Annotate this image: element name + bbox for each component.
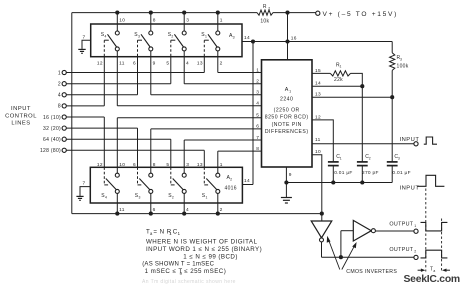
svg-text:8: 8 — [153, 162, 156, 168]
svg-text:OUTPUT: OUTPUT — [389, 247, 413, 253]
svg-text:1 ≤ N ≤ 99 (BCD): 1 ≤ N ≤ 99 (BCD) — [183, 254, 238, 261]
svg-text:12: 12 — [97, 60, 103, 66]
svg-text:2: 2 — [220, 60, 223, 66]
svg-text:WHERE N IS WEIGHT OF DIGITAL: WHERE N IS WEIGHT OF DIGITAL — [146, 238, 257, 245]
svg-text:An Tm digital schematic sh: An Tm digital schematic shown here — [142, 279, 236, 285]
svg-text:10k: 10k — [260, 19, 269, 25]
svg-text:2: 2 — [414, 250, 416, 254]
svg-text:5: 5 — [166, 60, 169, 66]
svg-text:270 pF: 270 pF — [362, 170, 379, 176]
svg-text:3: 3 — [138, 35, 140, 39]
svg-text:0.01 μF: 0.01 μF — [392, 170, 410, 176]
svg-text:9: 9 — [289, 172, 292, 178]
svg-text:a: a — [433, 269, 435, 273]
svg-text:2: 2 — [171, 35, 173, 39]
svg-text:1: 1 — [289, 89, 291, 93]
svg-text:13: 13 — [197, 162, 203, 168]
svg-text:11: 11 — [119, 60, 125, 66]
svg-text:(NOTE PIN: (NOTE PIN — [272, 122, 302, 128]
svg-text:9: 9 — [153, 60, 156, 66]
svg-text:12: 12 — [315, 114, 321, 120]
svg-text:4: 4 — [105, 35, 107, 39]
svg-text:OUTPUT: OUTPUT — [389, 221, 413, 227]
svg-text:3: 3 — [186, 17, 189, 23]
svg-text:1: 1 — [58, 70, 61, 76]
svg-text:100k: 100k — [397, 64, 409, 70]
svg-text:INPUT: INPUT — [400, 137, 420, 143]
svg-text:1: 1 — [340, 65, 342, 69]
svg-text:64 (40): 64 (40) — [43, 137, 61, 143]
svg-text:INPUT: INPUT — [11, 106, 31, 112]
svg-text:32 (20): 32 (20) — [43, 126, 61, 132]
svg-text:11: 11 — [315, 137, 321, 143]
svg-text:10: 10 — [119, 17, 125, 23]
svg-text:2: 2 — [268, 7, 270, 11]
svg-text:SeekIC.com: SeekIC.com — [404, 274, 460, 285]
svg-text:8250 FOR BCD): 8250 FOR BCD) — [265, 115, 309, 121]
svg-text:≤ 255 mSEC): ≤ 255 mSEC) — [184, 268, 226, 275]
svg-text:2: 2 — [58, 82, 61, 88]
svg-text:5: 5 — [256, 113, 259, 119]
svg-text:2240: 2240 — [280, 97, 293, 103]
svg-text:10: 10 — [315, 149, 321, 155]
svg-text:1 mSEC ≤ T: 1 mSEC ≤ T — [145, 268, 183, 275]
svg-text:128 (80): 128 (80) — [40, 148, 61, 154]
svg-text:14: 14 — [244, 35, 250, 41]
svg-text:7: 7 — [83, 35, 86, 41]
svg-text:1: 1 — [205, 35, 207, 39]
svg-text:8: 8 — [256, 146, 259, 152]
svg-text:INPUT: INPUT — [400, 185, 420, 191]
svg-text:CONTROL: CONTROL — [5, 113, 37, 119]
svg-text:1: 1 — [169, 231, 172, 236]
svg-text:0.01 μF: 0.01 μF — [334, 170, 352, 176]
svg-text:3: 3 — [186, 162, 189, 168]
svg-text:(AS SHOWN T = 1mSEC: (AS SHOWN T = 1mSEC — [142, 261, 214, 267]
svg-text:4016: 4016 — [225, 186, 237, 192]
svg-text:1: 1 — [414, 224, 416, 228]
svg-text:3: 3 — [139, 195, 141, 199]
svg-text:22k: 22k — [334, 77, 343, 83]
svg-text:6: 6 — [256, 124, 259, 130]
svg-text:2: 2 — [369, 156, 371, 160]
svg-text:(2250 OR: (2250 OR — [274, 107, 300, 113]
svg-text:13: 13 — [315, 91, 321, 97]
svg-text:1: 1 — [256, 67, 259, 73]
svg-text:DIFFERENCES): DIFFERENCES) — [265, 129, 309, 135]
svg-text:4: 4 — [256, 101, 259, 107]
svg-text:16 (10): 16 (10) — [43, 115, 61, 121]
svg-text:14: 14 — [244, 178, 250, 184]
svg-text:1: 1 — [206, 195, 208, 199]
svg-text:2: 2 — [256, 79, 259, 85]
svg-text:INPUT WORD 1 ≤ N ≤ 255 (BINARY: INPUT WORD 1 ≤ N ≤ 255 (BINARY) — [146, 246, 262, 253]
svg-text:R: R — [263, 4, 267, 10]
svg-text:7: 7 — [83, 180, 86, 186]
svg-text:1: 1 — [178, 231, 181, 236]
svg-text:CMOS INVERTERS: CMOS INVERTERS — [346, 269, 397, 275]
svg-text:7: 7 — [256, 135, 259, 141]
svg-text:16: 16 — [291, 36, 297, 42]
svg-text:2: 2 — [172, 195, 174, 199]
svg-text:1: 1 — [220, 162, 223, 168]
svg-text:4: 4 — [186, 207, 189, 213]
svg-text:V+ (–5 TO +15V): V+ (–5 TO +15V) — [323, 11, 398, 18]
svg-text:8: 8 — [153, 17, 156, 23]
svg-text:4: 4 — [186, 60, 189, 66]
svg-text:LINES: LINES — [11, 121, 30, 127]
svg-text:12: 12 — [97, 162, 103, 168]
svg-text:6: 6 — [133, 162, 136, 168]
svg-text:6: 6 — [133, 60, 136, 66]
svg-text:3: 3 — [256, 90, 259, 96]
svg-text:10: 10 — [119, 162, 125, 168]
svg-text:a: a — [180, 271, 183, 276]
svg-text:11: 11 — [119, 207, 125, 213]
svg-text:3: 3 — [400, 57, 402, 61]
svg-text:2: 2 — [230, 177, 232, 181]
svg-text:4: 4 — [58, 93, 61, 99]
svg-text:1: 1 — [340, 156, 342, 160]
svg-text:6: 6 — [153, 207, 156, 213]
svg-text:15: 15 — [315, 68, 321, 74]
svg-text:14: 14 — [315, 81, 321, 87]
svg-text:1: 1 — [220, 17, 223, 23]
svg-text:8: 8 — [58, 104, 61, 110]
svg-text:13: 13 — [197, 60, 203, 66]
svg-text:4: 4 — [105, 195, 107, 199]
svg-text:3: 3 — [233, 35, 235, 39]
svg-text:3: 3 — [398, 156, 400, 160]
svg-text:2: 2 — [220, 207, 223, 213]
svg-text:5: 5 — [166, 162, 169, 168]
